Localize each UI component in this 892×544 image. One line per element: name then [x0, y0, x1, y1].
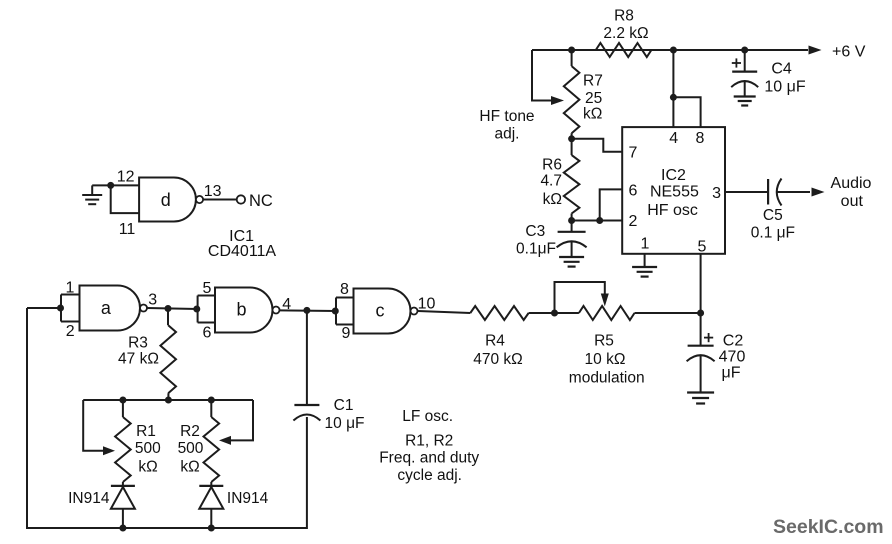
svg-text:500: 500 [178, 440, 204, 457]
svg-text:10 μF: 10 μF [764, 79, 805, 96]
svg-text:b: b [236, 299, 246, 319]
svg-text:7: 7 [629, 145, 638, 162]
svg-text:47 kΩ: 47 kΩ [118, 351, 159, 368]
svg-text:R5: R5 [594, 332, 614, 349]
svg-text:+6 V: +6 V [832, 44, 866, 61]
svg-text:LF osc.: LF osc. [402, 408, 453, 425]
svg-text:C1: C1 [334, 397, 354, 414]
svg-text:C3: C3 [525, 223, 545, 240]
svg-text:R1: R1 [136, 423, 156, 440]
svg-text:NE555: NE555 [650, 184, 699, 201]
svg-text:470: 470 [719, 349, 746, 366]
svg-text:R2: R2 [180, 423, 200, 440]
svg-text:adj.: adj. [495, 126, 520, 143]
svg-text:C2: C2 [723, 333, 744, 350]
svg-text:8: 8 [696, 130, 705, 147]
svg-text:C4: C4 [771, 61, 792, 78]
svg-text:3: 3 [712, 185, 721, 202]
svg-text:6: 6 [203, 324, 212, 341]
svg-text:SeekIC.com: SeekIC.com [773, 516, 884, 538]
svg-text:5: 5 [697, 238, 706, 255]
svg-text:HF osc: HF osc [647, 202, 698, 219]
svg-text:a: a [101, 298, 112, 318]
svg-text:Freq. and duty: Freq. and duty [379, 449, 479, 466]
svg-text:R4: R4 [485, 332, 505, 349]
svg-text:c: c [376, 300, 385, 320]
svg-text:Audio: Audio [831, 175, 872, 192]
svg-text:modulation: modulation [569, 370, 645, 387]
svg-text:μF: μF [722, 365, 741, 382]
svg-text:kΩ: kΩ [583, 106, 602, 123]
svg-text:5: 5 [203, 280, 212, 297]
svg-text:R8: R8 [614, 8, 634, 25]
svg-text:IN914: IN914 [227, 490, 269, 507]
svg-text:3: 3 [148, 292, 157, 309]
svg-text:500: 500 [135, 440, 161, 457]
svg-text:R6: R6 [542, 157, 562, 174]
svg-text:2: 2 [66, 323, 75, 340]
svg-text:out: out [841, 193, 864, 210]
svg-text:6: 6 [629, 182, 638, 199]
svg-text:9: 9 [341, 325, 350, 342]
svg-text:CD4011A: CD4011A [208, 243, 277, 260]
svg-text:2.2 kΩ: 2.2 kΩ [603, 25, 648, 42]
svg-text:10 μF: 10 μF [325, 415, 365, 432]
svg-text:12: 12 [117, 169, 135, 186]
svg-text:0.1μF: 0.1μF [516, 241, 556, 258]
svg-text:NC: NC [249, 192, 273, 210]
svg-text:25: 25 [585, 90, 602, 107]
svg-text:4: 4 [669, 130, 678, 147]
svg-text:11: 11 [119, 221, 136, 238]
svg-text:2: 2 [629, 213, 638, 230]
svg-text:IC2: IC2 [661, 167, 686, 184]
svg-text:R3: R3 [128, 335, 148, 352]
svg-text:4: 4 [282, 296, 291, 313]
svg-text:0.1 μF: 0.1 μF [751, 224, 795, 241]
svg-text:cycle adj.: cycle adj. [397, 467, 462, 484]
svg-text:1: 1 [641, 236, 650, 253]
svg-text:kΩ: kΩ [138, 459, 157, 476]
svg-text:470 kΩ: 470 kΩ [473, 351, 523, 368]
svg-text:4.7: 4.7 [540, 173, 562, 190]
svg-text:kΩ: kΩ [543, 191, 562, 208]
svg-text:8: 8 [340, 281, 349, 298]
svg-text:kΩ: kΩ [180, 459, 199, 476]
svg-text:d: d [161, 190, 171, 210]
svg-text:HF tone: HF tone [479, 108, 534, 125]
svg-text:13: 13 [204, 183, 222, 200]
svg-text:R1, R2: R1, R2 [405, 433, 453, 450]
svg-text:C5: C5 [763, 207, 783, 224]
svg-text:R7: R7 [583, 73, 603, 90]
svg-text:IN914: IN914 [68, 490, 110, 507]
svg-text:1: 1 [66, 279, 75, 296]
svg-text:10 kΩ: 10 kΩ [585, 351, 626, 368]
